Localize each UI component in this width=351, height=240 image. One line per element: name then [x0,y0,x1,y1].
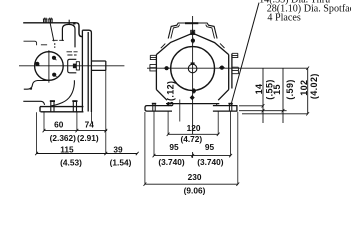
svg-text:74: 74 [85,120,95,130]
svg-text:14: 14 [254,84,264,95]
svg-text:(2.91): (2.91) [77,133,99,143]
svg-text:(3.740): (3.740) [158,157,185,167]
svg-text:102: 102 [299,80,309,96]
svg-text:(.59): (.59) [285,79,295,100]
svg-text:(4.02): (4.02) [309,73,319,99]
svg-text:95: 95 [205,142,215,152]
svg-text:39: 39 [113,144,123,154]
svg-text:4 Places: 4 Places [267,13,300,24]
svg-text:(4.72): (4.72) [180,134,202,144]
svg-text:230: 230 [188,172,202,182]
svg-text:115: 115 [60,145,74,155]
svg-text:(2.362): (2.362) [50,133,77,143]
svg-text:120: 120 [187,123,201,133]
svg-text:3(.12): 3(.12) [166,81,176,107]
svg-text:(9.06): (9.06) [184,186,206,195]
svg-text:60: 60 [54,120,64,130]
svg-text:(1.54): (1.54) [110,158,132,168]
svg-text:15: 15 [272,84,282,95]
svg-text:(4.53): (4.53) [60,158,82,168]
svg-text:(3.740): (3.740) [197,157,224,167]
svg-text:95: 95 [169,142,179,152]
